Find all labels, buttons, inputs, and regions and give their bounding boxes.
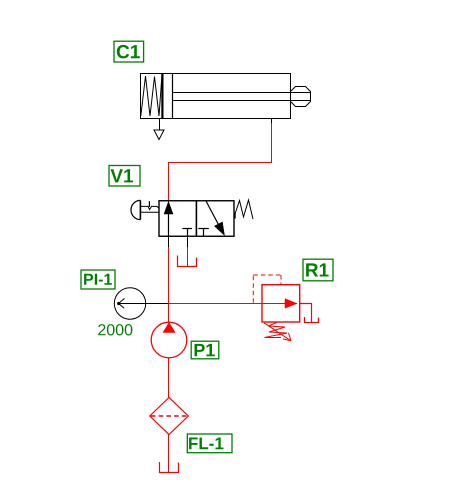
filter FL-1 element dashed: [151, 415, 187, 417]
cylinder C1 rod end knob: [291, 87, 311, 107]
cylinder C1 body: [141, 74, 291, 119]
wire cylinder to valve (horizontal): [168, 162, 272, 164]
label FL-1: [187, 434, 232, 453]
label PI-1: [81, 270, 115, 289]
label R1: [303, 259, 333, 281]
wire filter to tank: [168, 435, 170, 473]
relief valve R1 flow arrowhead: [285, 299, 297, 309]
valve V1 right-box blocked port T: [203, 229, 205, 237]
wire pump to filter: [168, 358, 170, 398]
relief valve R1 outlet: [300, 304, 312, 323]
relief valve R1 adjustment arrow: [264, 323, 291, 341]
tank at filter inlet: [160, 462, 179, 473]
valve V1 return spring: [235, 200, 254, 219]
gauge PI-1 arrow: [119, 303, 170, 305]
valve V1 left-box flow arrow: [168, 204, 170, 236]
cylinder C1 vent triangle: [154, 130, 164, 140]
tank under valve: [178, 256, 197, 267]
wire into valve top port: [168, 162, 170, 201]
label V1: [109, 166, 140, 187]
cylinder C1 piston: [162, 74, 172, 119]
filter FL-1 diamond: [150, 398, 189, 435]
port stub valve P: [168, 236, 170, 247]
gauge PI-1 circle: [114, 288, 145, 319]
valve V1 body: [159, 201, 234, 237]
relief valve R1 adjustable spring: [265, 322, 288, 337]
valve V1 push-button actuator dome: [131, 200, 140, 219]
label P1: [191, 341, 219, 359]
valve V1 divider: [195, 200, 197, 236]
valve V1 actuator linkage: [140, 206, 159, 209]
cylinder C1 piston rod: [173, 93, 311, 101]
cylinder C1 return spring: [141, 75, 162, 117]
valve V1 right-box diagonal arrow: [206, 201, 220, 227]
port stub at cylinder bottom: [271, 119, 273, 125]
wire pump line to relief valve R1: [169, 303, 298, 305]
gauge value 2000: [98, 324, 132, 335]
label C1: [114, 41, 144, 62]
wire valve T to tank: [187, 247, 189, 267]
wire valve P to pump: [168, 247, 170, 323]
tank at relief valve outlet: [305, 317, 319, 323]
pump P1 circle: [151, 322, 187, 358]
valve V1 left-box blocked port T: [187, 229, 189, 237]
cylinder C1 vent line: [159, 119, 161, 131]
pump P1 flow triangle: [163, 323, 175, 333]
port stub valve T: [187, 236, 189, 247]
relief valve R1 body: [262, 285, 300, 322]
wire cylinder to valve (vertical right): [271, 123, 273, 163]
relief valve R1 pilot dashed line: [253, 275, 281, 303]
